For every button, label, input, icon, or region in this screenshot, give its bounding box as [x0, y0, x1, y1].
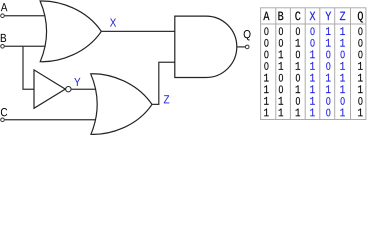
- wire B to OR1: [5, 45, 50, 47]
- truth table row 6: 101 111 1: [264, 85, 363, 93]
- wire Z (OR2 output to AND input): [152, 62, 175, 104]
- node Y label: [74, 78, 80, 86]
- wire X (OR1 output to AND input): [101, 30, 175, 32]
- truth table row 3: 010 100 0: [264, 50, 362, 58]
- truth table row 2: 001 011 0: [264, 39, 362, 47]
- wire Y (NOT output to OR2 input): [71, 88, 100, 90]
- truth table row 1: 000 011 0: [264, 27, 362, 35]
- or-gate OR1 (X = A OR B): [40, 1, 101, 62]
- truth table row 8: 111 101 1: [264, 109, 363, 117]
- wire A to OR1: [5, 15, 50, 17]
- wire B branch down to NOT input: [23, 46, 34, 89]
- input C terminal: [1, 118, 5, 122]
- not-gate U2 (Y = NOT B): [34, 70, 65, 108]
- not-gate U2 output bubble: [66, 86, 71, 91]
- wire Q (AND output): [237, 46, 245, 48]
- truth table row 5: 100 111 1: [264, 74, 363, 82]
- input A terminal: [1, 14, 5, 18]
- input B label: [1, 34, 6, 42]
- truth table row 4: 011 101 1: [264, 62, 362, 70]
- input C label: [1, 108, 7, 116]
- input B terminal: [1, 45, 5, 49]
- truth table header row: [263, 12, 363, 23]
- wire C to OR2: [5, 119, 100, 121]
- input A label: [1, 3, 8, 11]
- node X label: [110, 18, 116, 26]
- and-gate U4 (Q = X AND Z): [175, 16, 237, 77]
- output Q label: [244, 30, 251, 40]
- truth table frame: [261, 8, 366, 120]
- or-gate OR2 (Z = Y OR C): [91, 74, 152, 135]
- output Q terminal: [245, 45, 249, 49]
- truth table row 7: 110 100 0: [264, 97, 362, 105]
- node Z label: [164, 95, 169, 103]
